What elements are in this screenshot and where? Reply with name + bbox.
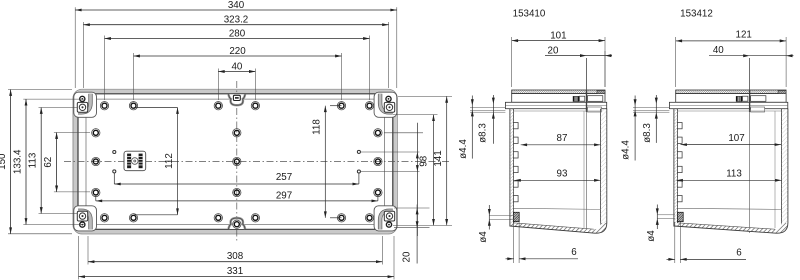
dim 133.4 [25,99,27,224]
ear pin bottom-right [386,222,391,227]
dim 118 [330,105,342,107]
svg-text:107: 107 [728,133,744,144]
svg-text:20: 20 [402,251,413,262]
lid corner fillet [78,211,91,230]
card guide tab [513,196,518,202]
svg-text:340: 340 [228,0,245,11]
pcb dot lower-left [113,170,116,173]
extension lines left [8,89,72,91]
dim phi 4.4 (153410) [470,107,505,109]
body outline [673,109,675,227]
svg-text:331: 331 [227,266,243,277]
dim 340 [75,9,397,11]
body bottom [677,208,781,209]
hole right column 1 [374,129,382,137]
card guide tab [513,152,518,158]
svg-text:133.4: 133.4 [12,149,23,174]
ear screw bottom-left [77,211,87,221]
card guide tab [513,123,518,129]
hole center column 2 [233,157,241,165]
svg-text:280: 280 [229,28,246,39]
screw axis line [586,58,588,233]
card guide tab [677,123,682,129]
extension lines right [398,95,452,97]
dim phi 8.3 (153410) [492,95,494,144]
top center latch notch [229,94,246,105]
extension lines top [74,7,76,88]
svg-text:98: 98 [419,155,430,166]
svg-text:40: 40 [231,61,242,72]
dim 112 [134,107,178,109]
svg-text:121: 121 [736,30,752,41]
hole right column 2 [374,157,382,165]
dim 220 [134,55,342,57]
svg-text:6: 6 [571,247,577,258]
lid screw detail [573,96,579,102]
card guide tab [677,196,682,202]
pcb dot upper-left [113,150,116,153]
hole left column 3 [92,188,100,196]
flange outline [73,89,397,234]
svg-text:112: 112 [164,153,175,169]
svg-text:6: 6 [736,247,742,258]
card guide tab [677,137,682,143]
lid skirt [512,94,605,103]
dim 6 (153412) [674,222,676,263]
card guide tab [513,181,518,187]
hole center column 3 [233,188,241,196]
svg-text:113: 113 [28,152,39,168]
corner ear bottom-left [74,206,97,231]
mounting foot [677,212,683,221]
hole left column 2 [92,157,100,165]
dim 323.2 [83,24,388,26]
dim 62 [56,133,58,192]
svg-text:ø4: ø4 [646,230,657,242]
hole center column 1 [233,129,241,137]
dim 40 (153412) [709,55,786,57]
card guide tab [677,152,682,158]
svg-text:257: 257 [276,172,292,183]
hole top row 3 [214,102,222,110]
ear pin top-right [386,96,391,101]
dim 113 [40,108,42,214]
dim phi 4 (153410) [489,214,514,216]
hole top row 2 [129,102,137,110]
dim 297 [95,196,97,201]
lid top band (section) [676,90,786,94]
flange [669,102,787,108]
hole top row 1 [100,102,108,110]
svg-text:141: 141 [433,150,444,166]
lid skirt [676,94,786,103]
hole top row 4 [251,102,259,110]
pcb dot upper-right [357,150,360,153]
hole top row 6 [365,102,373,110]
svg-text:40: 40 [713,45,724,56]
dim 93 [514,179,600,181]
body outline [509,109,511,227]
svg-text:297: 297 [276,190,292,201]
dim 101 [511,37,513,87]
svg-text:20: 20 [548,46,559,57]
dim 257 [113,173,115,184]
dim 20 [545,55,612,57]
hole bottom row 5 [337,214,345,222]
svg-text:62: 62 [43,157,54,168]
dim 150 [10,90,12,234]
ear pin top-left [80,96,85,101]
vertical centerline [236,81,238,243]
lid screw detail [736,96,742,102]
hole bottom row 6 [365,214,373,222]
top notch hole [233,95,240,100]
corner ear bottom-right [374,206,397,231]
lid inner face line [86,99,385,224]
logo block [124,151,146,171]
ear screw bottom-right [384,211,394,221]
hole bottom row 2 [129,214,137,222]
lid outline [78,94,393,230]
dim 121 [675,37,677,87]
hole bottom row 1 [100,214,108,222]
svg-text:220: 220 [229,46,246,57]
svg-text:93: 93 [557,169,568,180]
svg-text:101: 101 [550,30,566,41]
svg-text:308: 308 [227,251,244,262]
lid corner fillet [380,211,393,230]
dim 280 [105,38,370,40]
svg-text:ø8.3: ø8.3 [477,123,488,143]
mounting foot [513,212,519,221]
dim phi 8.3 (153412) [655,95,657,143]
card guide tab [677,166,682,172]
svg-text:153412: 153412 [680,9,713,20]
dim 308 [88,261,382,263]
extension lines bottom [87,236,89,265]
dim phi 4.4 (153412) [633,107,669,109]
hole top row 5 [337,102,345,110]
svg-text:118: 118 [311,119,322,135]
gray edge band [76,92,395,232]
card guide tab [677,181,682,187]
screw axis line [749,58,751,233]
lid top band (section) [512,90,605,94]
ear screw top-right [384,102,394,112]
svg-text:ø4.4: ø4.4 [458,139,469,159]
dim 6 (153410) [513,222,515,263]
flange [505,102,606,108]
card guide tab [513,166,518,172]
auxiliary vertical dim line [433,115,435,226]
dim 98 [416,123,418,236]
svg-text:87: 87 [557,133,568,144]
bottom center latch notch [229,218,246,229]
body bottom [513,208,600,209]
dim 87 [521,144,601,146]
svg-text:ø8.3: ø8.3 [642,123,653,143]
dim 113 (153412) [677,179,782,181]
dim phi 4 (153412) [657,214,675,216]
hole left column 1 [92,129,100,137]
extension lines 20 bottom right [394,207,430,209]
dim 20 (bottom right) [416,205,418,264]
lid corner fillet [78,94,91,113]
svg-text:ø4.4: ø4.4 [621,140,632,160]
horizontal centerline [64,161,450,163]
hole right column 3 [374,188,382,196]
ear screw top-left [77,102,87,112]
corner ear top-left [74,92,97,117]
svg-text:150: 150 [0,153,8,170]
dim 141 [446,96,448,225]
bottom notch hole [233,220,241,228]
card guide tab [513,137,518,143]
svg-text:ø4: ø4 [478,231,489,243]
lid corner fillet [380,94,393,113]
dim 40 [218,71,255,73]
dim 331 [79,276,395,278]
svg-text:153410: 153410 [513,9,546,20]
corner ear top-right [374,92,397,117]
ear pin bottom-left [80,222,85,227]
hole bottom row 4 [251,214,259,222]
hole bottom row 3 [214,214,222,222]
pcb dot lower-right [357,170,360,173]
svg-text:113: 113 [726,169,742,180]
dim 107 [681,144,782,146]
svg-text:323.2: 323.2 [224,15,249,26]
